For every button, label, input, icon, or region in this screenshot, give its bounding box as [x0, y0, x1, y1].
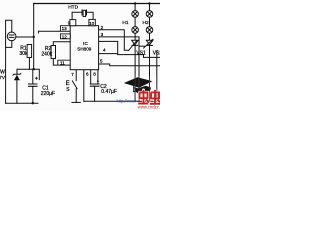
- IC U1 SH809: [70, 26, 98, 70]
- wire mic bottom to left vertical: [6, 41, 12, 104]
- watermark bug character 2: [150, 90, 160, 104]
- pin 9 box: [68, 20, 76, 26]
- svg-text:13: 13: [62, 26, 68, 31]
- resistor R1: [19, 45, 31, 58]
- thyristor VS2: [146, 40, 162, 57]
- wire R2 bottom lead to pin 11: [53, 59, 70, 66]
- svg-text:10: 10: [89, 21, 94, 26]
- svg-text:6: 6: [86, 72, 89, 77]
- lamp H2 (lower): [146, 27, 153, 34]
- watermark bug character 1: [138, 90, 149, 104]
- pin 12 box: [60, 34, 70, 39]
- wire zener top lead: [16, 69, 18, 74]
- wire pin 4: [99, 41, 160, 57]
- wire R2 top lead to pin 12: [53, 42, 70, 46]
- microphone BM: [7, 32, 16, 41]
- svg-text:220µF: 220µF: [41, 91, 55, 97]
- svg-text:VS1: VS1: [136, 51, 146, 57]
- svg-text:SH809: SH809: [77, 46, 91, 51]
- wire zener node horizontal: [17, 69, 39, 79]
- svg-text:H2: H2: [143, 20, 149, 26]
- lamp H1 (lower): [132, 27, 139, 34]
- wire top supply rail: [34, 3, 161, 5]
- wire VS2 gate tap: [139, 45, 145, 47]
- svg-text:8: 8: [93, 72, 96, 77]
- wire pin 2 to VS1 gate: [99, 30, 129, 51]
- pin 10 box: [89, 19, 95, 25]
- wire resonator left to pin 9: [72, 12, 82, 19]
- node dot rail column 2: [148, 2, 150, 4]
- resistor R2: [41, 46, 55, 59]
- ceramic resonator HTD: [68, 5, 86, 17]
- thyristor VS1: [132, 40, 146, 56]
- wire right lower vertical: [156, 51, 158, 102]
- wire lamp column 2: [149, 4, 151, 11]
- svg-text:11: 11: [60, 61, 65, 66]
- watermark graduation cap logo: [124, 77, 153, 94]
- svg-text:E: E: [66, 81, 70, 87]
- wire pin 5: [99, 64, 160, 66]
- node dot rail column 1: [134, 2, 136, 4]
- zener diode VS (1W 2.7V): [0, 70, 21, 81]
- wire pin 6 down: [83, 70, 85, 102]
- svg-text:VS2: VS2: [153, 51, 160, 57]
- switch S blade: [72, 81, 77, 89]
- wire switch to ground stub: [75, 89, 77, 103]
- wire streaks over watermark: [135, 76, 157, 101]
- wire bottom-right ground segment: [84, 100, 157, 102]
- svg-text:http://www: http://www: [117, 99, 138, 104]
- wire mic output to node: [16, 36, 34, 38]
- wire resonator right to pin 10: [87, 12, 94, 19]
- wire left drop from rail to R1: [33, 4, 35, 70]
- node dot zener/C1 junction: [33, 68, 35, 70]
- wire ground stub under switch: [72, 101, 81, 103]
- svg-text:2: 2: [101, 25, 104, 30]
- svg-text:7: 7: [71, 72, 74, 77]
- wire pin 7 to switch: [75, 70, 77, 81]
- wire bottom-left ground segment: [6, 102, 38, 104]
- svg-text:4: 4: [103, 47, 106, 52]
- lamp H2 (upper): [146, 11, 153, 18]
- capacitor C2 0.47uF: [90, 80, 117, 95]
- wire pin 3 drop: [99, 37, 139, 101]
- wire C1 vertical: [32, 69, 34, 84]
- wire mic top to left vertical: [6, 20, 12, 47]
- svg-text:30k: 30k: [19, 51, 28, 57]
- wire lamp column 1: [134, 4, 136, 11]
- capacitor C1 220uF: [28, 77, 55, 98]
- wire R1 bottom lead: [28, 58, 30, 70]
- wire pin 13: [38, 31, 70, 33]
- svg-text:12: 12: [62, 34, 68, 39]
- svg-text:3: 3: [101, 32, 104, 37]
- svg-text:www.cndzz.com: www.cndzz.com: [138, 105, 160, 110]
- svg-text:240k: 240k: [41, 51, 52, 57]
- wire C2 lower lead: [94, 86, 96, 101]
- pin 11 box: [58, 60, 70, 65]
- svg-text:HTD: HTD: [68, 5, 78, 11]
- svg-text:5: 5: [100, 58, 103, 63]
- svg-text:0.47µF: 0.47µF: [101, 89, 117, 95]
- node dot ground segment: [32, 102, 34, 104]
- lamp H1 (upper): [132, 11, 139, 18]
- node dot mic/R1 junction: [33, 36, 35, 38]
- wire C1 lower lead: [32, 86, 34, 103]
- wire zener bottom lead: [16, 80, 18, 103]
- pin 13 box: [60, 26, 70, 32]
- svg-text:H1: H1: [122, 20, 128, 26]
- wire pin 8 to C2: [90, 70, 92, 84]
